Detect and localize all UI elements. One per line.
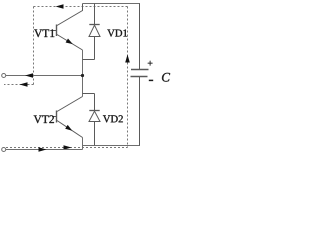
label minus polarity (149, 79, 153, 81)
node junction middle (81, 74, 84, 77)
capacitor C (131, 4, 149, 146)
label VT2 (34, 115, 54, 123)
transistor VT1 (52, 4, 83, 51)
diode VD2 (83, 94, 101, 146)
arrow right on bottom dashed edge (64, 145, 72, 150)
label C (162, 73, 170, 82)
arrow left on lower-left dashed segment (20, 82, 28, 87)
wire dashed current-path lower-left segment (4, 84, 34, 86)
arrow VT1 emitter (66, 39, 73, 45)
label plus polarity (148, 61, 153, 66)
node input terminal (middle left) (2, 74, 6, 78)
wire dashed current-path top edge (34, 6, 128, 8)
wire bottom terminal horizontal (6, 149, 83, 151)
wire VT2 emitter vertical (82, 138, 84, 150)
wire center vertical (VT1 emitter to VT2 collector) (82, 50, 84, 97)
wire bottom rail (83, 145, 141, 147)
arrow up on right dashed edge (125, 55, 130, 63)
diode VD1 (83, 4, 101, 60)
node bottom terminal (bottom left) (2, 148, 6, 152)
wire middle horizontal (6, 75, 83, 77)
wire dashed current-path left edge (33, 7, 35, 85)
arrow VT2 emitter (65, 125, 72, 131)
label VD2 (103, 115, 123, 122)
transistor VT2 (52, 97, 83, 138)
arrow left on top dashed edge (56, 4, 64, 9)
label VD1 (107, 30, 127, 37)
wire top rail (83, 3, 141, 5)
wire dashed current-path bottom edge (6, 147, 128, 149)
label VT1 (34, 29, 54, 37)
wire dashed current-path right edge (127, 7, 129, 148)
arrow right on bottom terminal wire (39, 147, 47, 152)
arrow left on middle wire (25, 73, 33, 78)
